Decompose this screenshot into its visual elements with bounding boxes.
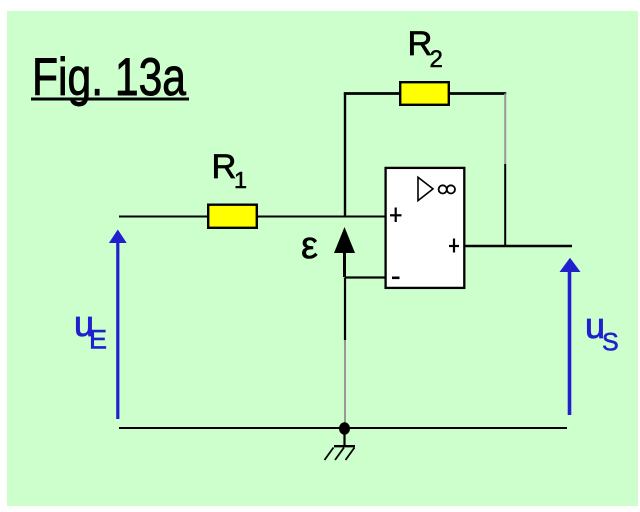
resistor R1 [208,205,257,228]
wire input [119,216,208,218]
svg-text:S: S [602,329,619,357]
op-amp output plus marker [449,239,459,253]
label uE [74,303,107,355]
title Fig. 13a [31,48,189,107]
wire inverting input [345,276,386,278]
wire to ground lower gray [344,340,346,423]
wire feedback top right [449,92,506,95]
op-amp minus input marker [392,276,400,279]
svg-text:2: 2 [430,46,443,73]
wire to ground upper [344,278,346,341]
resistor R2 [400,82,449,105]
wire feedback top left [344,92,400,95]
op-amp gain triangle [418,177,433,200]
svg-text:ε: ε [301,225,318,267]
svg-text:R: R [212,148,237,186]
wire bottom [119,427,567,429]
wire output [466,245,573,248]
wire feedback right vertical lower [504,164,506,246]
epsilon arrow [334,227,355,277]
wire feedback left vertical [344,94,346,217]
label uS [585,305,619,357]
op-amp plus input marker [390,208,402,223]
arrow uE [109,230,127,420]
arrow uS [560,258,581,415]
junction dot [339,422,350,434]
wire R1 to op-amp non-inverting input [257,216,385,218]
op-amp infinity symbol [439,185,455,193]
svg-text:1: 1 [234,167,247,193]
svg-text:E: E [89,325,107,355]
ground [325,434,356,460]
label R1 [212,148,248,193]
op-amp U1 body [386,168,465,288]
wire feedback right vertical upper gray [504,94,506,165]
label R2 [408,25,443,73]
